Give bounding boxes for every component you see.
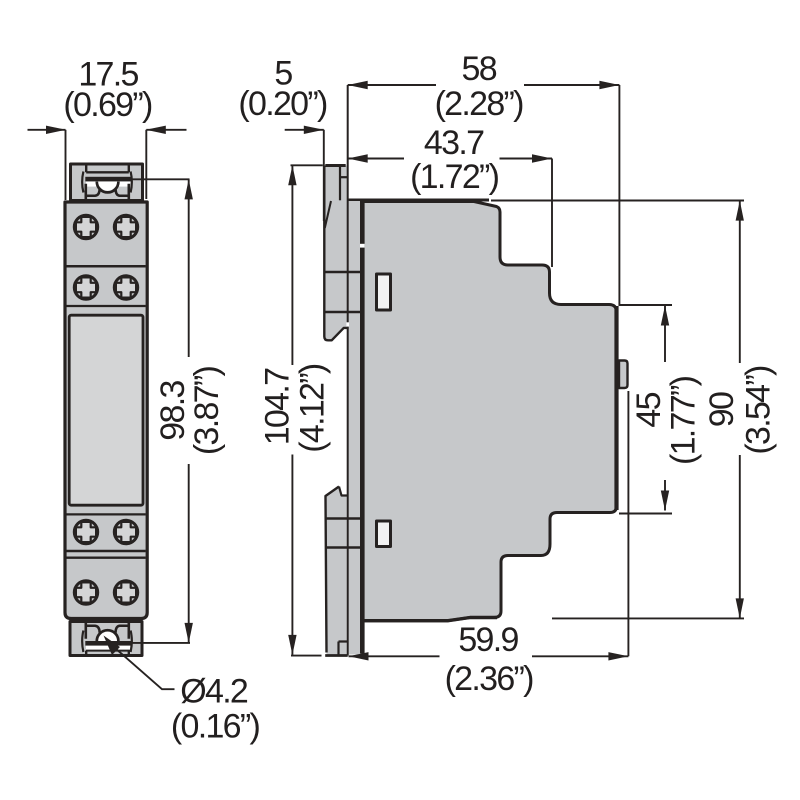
tab catch columns: [86, 184, 129, 200]
bottom tab slot lower line: [86, 650, 130, 652]
screw B4: [114, 581, 137, 604]
svg-text:90: 90: [703, 392, 741, 427]
dim 5 line: [285, 129, 324, 131]
arrow 45 bottom (points down): [661, 491, 669, 511]
dim 17.5 extension left: [65, 130, 67, 200]
svg-text:(2.28”): (2.28”): [435, 85, 524, 123]
right bump tab: [619, 361, 628, 389]
dim 90 top reference: [491, 200, 744, 202]
bottom tab catch arm left: [86, 626, 100, 633]
svg-text:Ø4.2: Ø4.2: [180, 673, 248, 711]
dim 98.3 line: [188, 179, 190, 643]
arrow 59.9 right (points right): [608, 652, 628, 660]
tab white slot: [86, 181, 130, 186]
tab side bracket left: [82, 172, 83, 193]
divider line below screws row1: [67, 265, 146, 268]
body top edge thick: [347, 199, 490, 202]
svg-text:(0.20”): (0.20”): [238, 85, 327, 123]
top clip inner crease: [325, 201, 331, 228]
arrow 98.3 top (points up): [185, 179, 193, 199]
body bottom edge thick: [363, 618, 497, 621]
svg-text:104.7: 104.7: [259, 368, 297, 445]
dim 98.3 top reference: [131, 178, 190, 180]
dim 104.7 top reference: [291, 164, 323, 166]
arrow 17.5 left (points right): [46, 126, 66, 134]
svg-text:45: 45: [630, 392, 668, 427]
bottom tab window stubs: [86, 651, 129, 655]
arrow 59.9 left (points left): [349, 652, 369, 660]
side view main body (stepped profile): [363, 202, 617, 621]
white notch in thick line: [360, 244, 365, 248]
dim 90 line: [739, 201, 741, 619]
dim 5 extension: [323, 130, 325, 221]
tab catch arm left: [86, 189, 100, 196]
dim 59.9 line: [349, 655, 629, 657]
dim 104.7 bottom reference: [291, 655, 322, 657]
bottom tab catch columns: [86, 623, 129, 639]
dim 58 line: [348, 84, 620, 86]
arrow 104.7 bottom (points down): [288, 635, 296, 655]
din rail plate slab: [348, 201, 363, 655]
dim 45 bottom reference: [619, 513, 672, 515]
dim 17.5 line right: [146, 129, 186, 131]
white notch in plate line at clip taper: [346, 322, 349, 326]
dim 104.7 line: [291, 165, 293, 655]
top slot (white): [377, 274, 391, 310]
screw T2: [114, 215, 137, 238]
arrow 90 top (points up): [736, 201, 744, 221]
bottom tab white hole (half-disc up): [98, 632, 117, 641]
arrow 43.7 left (points left): [348, 154, 368, 162]
bottom tab side bracket left: [82, 631, 83, 653]
top clip inner slot: [339, 166, 341, 201]
screw B2: [114, 520, 137, 543]
arrow hole leader (points up-left into hole): [104, 636, 121, 656]
screw B1: [74, 520, 97, 543]
svg-text:(3.54”): (3.54”): [740, 366, 778, 455]
tab top window stubs: [86, 164, 129, 172]
arrow 45 top (points up): [661, 306, 669, 326]
bottom clip: [326, 487, 347, 656]
svg-text:(0.16”): (0.16”): [171, 708, 260, 746]
arrow 58 right (points right): [599, 81, 619, 89]
svg-text:(4.12”): (4.12”): [293, 364, 331, 453]
arrow 104.7 top (points up): [288, 165, 296, 185]
body right edge thick: [614, 306, 618, 510]
bottom clip bottom edge: [325, 654, 348, 657]
dim 17.5 line left: [28, 129, 66, 131]
screw T4: [114, 276, 137, 299]
bottom tab white slot: [86, 646, 130, 651]
dim 43.7 line: [348, 158, 552, 160]
dim 58 extension right: [618, 85, 620, 306]
rail plate thick line: [360, 199, 365, 654]
bottom slot (white): [377, 521, 391, 547]
arrow 17.5 right (points left): [146, 126, 166, 134]
screw T1: [74, 215, 97, 238]
dim 90 bottom reference: [552, 617, 744, 619]
svg-text:58: 58: [461, 50, 496, 88]
divider line y=518.5: [326, 517, 364, 519]
top clip: [324, 166, 348, 341]
arrow 43.7 right (points right): [532, 154, 552, 162]
tab slot dark bar: [85, 177, 131, 182]
arrow 98.3 bottom (points down): [185, 623, 193, 643]
line below label window: [67, 513, 146, 515]
svg-text:(0.69”): (0.69”): [63, 86, 152, 124]
tab white hole (half-disc): [98, 181, 117, 190]
bottom tab catch arm right: [116, 626, 129, 633]
divider line y=272: [324, 271, 364, 273]
plate left thin line (also 58/59.9 left extension): [347, 85, 349, 656]
svg-text:43.7: 43.7: [424, 124, 484, 162]
dim 45 top reference: [620, 304, 672, 306]
screw B3: [74, 581, 97, 604]
svg-text:(1.72”): (1.72”): [410, 158, 499, 196]
dim 98.3 bottom reference: [131, 642, 191, 644]
bottom mounting tab: [70, 622, 142, 656]
divider line y=547.5: [326, 546, 364, 548]
dim 45 line: [664, 306, 666, 511]
bottom tab side bracket right: [131, 631, 132, 653]
tab catch arm right: [116, 189, 129, 196]
bottom tab slot dark bar: [85, 641, 131, 646]
leader line for hole dia: [115, 648, 175, 689]
double divider lines: [67, 551, 146, 558]
line above label window: [67, 305, 146, 307]
tab side bracket right: [131, 172, 132, 193]
dim 17.5 extension right: [145, 130, 147, 199]
top mounting tab: [71, 164, 143, 201]
dim 59.9 extension right: [627, 391, 629, 656]
arrow 5 (points right): [304, 126, 324, 134]
label window: [69, 315, 143, 505]
bottom clip small block: [339, 642, 348, 656]
svg-text:98.3: 98.3: [154, 381, 192, 441]
screw T3: [74, 276, 97, 299]
svg-text:(2.36”): (2.36”): [445, 660, 534, 698]
dim 43.7 extension right: [551, 159, 553, 268]
front body: [65, 202, 147, 619]
svg-text:(1.77”): (1.77”): [664, 376, 702, 465]
svg-text:59.9: 59.9: [458, 621, 518, 659]
arrow 58 left (points left): [348, 81, 368, 89]
divider line y=312: [324, 311, 362, 313]
arrow 90 bottom (points down): [736, 598, 744, 618]
svg-text:(3.87”): (3.87”): [188, 367, 226, 456]
